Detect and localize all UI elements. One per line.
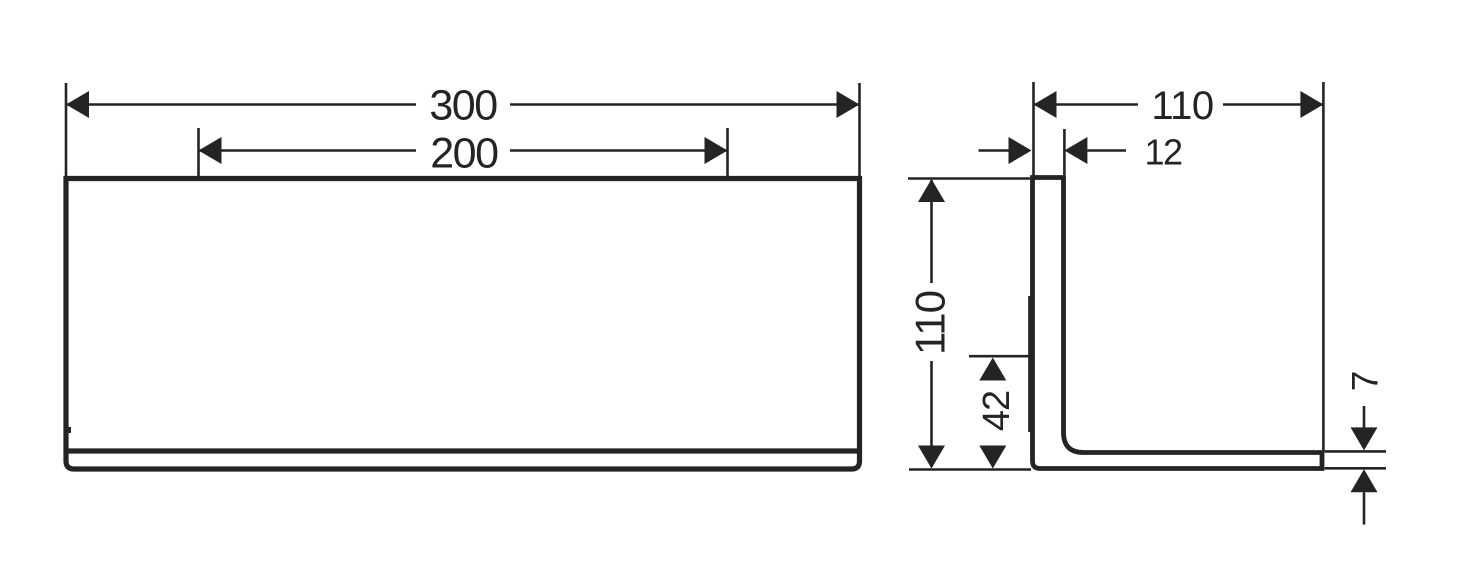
dim 12: right arrowhead pointing left (1064, 137, 1087, 164)
dim 200: right extension line (726, 128, 729, 176)
dim 12: left arrowhead pointing right (1009, 137, 1032, 164)
svg-text:300: 300 (429, 82, 497, 130)
svg-text:110: 110 (907, 291, 954, 355)
dim 7: bottom extension line (1325, 467, 1386, 470)
dim 42: top extension line (969, 355, 1029, 358)
svg-text:7: 7 (1345, 371, 1386, 392)
dim 7: top arrowhead pointing down (1351, 427, 1378, 450)
dim 42: bottom arrowhead pointing down (979, 446, 1006, 469)
dim 200: dimension line left segment (199, 149, 417, 152)
svg-text:110: 110 (1151, 84, 1213, 128)
dim 110 horizontal: left arrowhead (1034, 91, 1057, 118)
dim 300: left arrowhead (66, 91, 89, 118)
dim 200: right arrowhead (705, 137, 728, 164)
dim 110 vertical: bottom arrowhead pointing down (918, 446, 945, 469)
dim 300: dimension line right segment (510, 103, 860, 106)
dim 12: outside leader line left (979, 149, 1011, 152)
dim 200: left extension line (197, 128, 200, 176)
dim 110 vertical: bottom extension line (909, 468, 1031, 471)
svg-text:200: 200 (430, 130, 498, 178)
dim 200: dimension line right segment (510, 149, 728, 152)
dim 12: outside leader line right (1087, 149, 1126, 152)
dim 110 vertical: top extension line (908, 177, 1030, 180)
svg-text:42: 42 (976, 391, 1018, 431)
side view: L-profile outline (1033, 178, 1323, 469)
front view: shelf outline (66, 179, 860, 470)
svg-text:12: 12 (1144, 132, 1182, 173)
dim 7: lower leader line (1363, 492, 1366, 524)
dim 110 vertical: dimension line upper segment (930, 180, 933, 283)
dim 300: right arrowhead (837, 91, 860, 118)
dim 110 vertical: top arrowhead pointing up (918, 179, 945, 202)
dim 110 vertical: dimension line lower segment (930, 361, 933, 467)
dim 110 horizontal: right extension line (1322, 82, 1325, 451)
dim 200: left arrowhead (199, 137, 222, 164)
dim 110 horizontal: dimension line right segment (1223, 103, 1323, 106)
dim 12: right extension line (1063, 129, 1066, 175)
dim 110 horizontal: right arrowhead (1300, 91, 1323, 118)
dim 110 horizontal: left extension line (1032, 82, 1035, 176)
dim 7: upper leader line (1363, 406, 1366, 428)
dim 42: top arrowhead pointing up (979, 358, 1006, 381)
side view: wall seam strip on left edge (1028, 296, 1031, 432)
dim 300: left extension line (65, 83, 68, 176)
dim 300: dimension line left segment (66, 103, 416, 106)
dim 7: top extension line (1325, 450, 1386, 453)
dim 7: bottom arrowhead pointing up (1351, 469, 1378, 492)
front view: left edge seam notch (68, 427, 71, 433)
dim 300: right extension line (858, 83, 861, 176)
front view: bottom plate front edge line (69, 448, 858, 453)
dim 110 horizontal: dimension line left segment (1034, 103, 1139, 106)
